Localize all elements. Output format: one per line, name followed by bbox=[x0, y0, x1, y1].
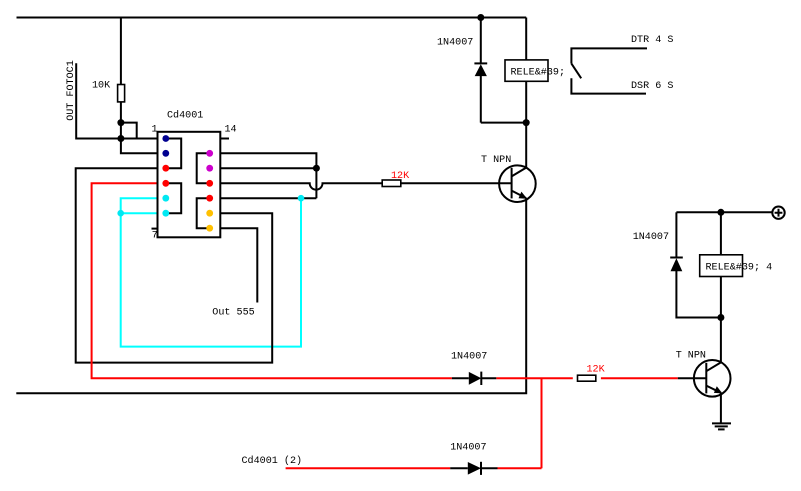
pin dot 1 bbox=[162, 135, 169, 142]
diode D1 1N4007 leads bbox=[480, 18, 482, 123]
wire relay2 left branch upper bbox=[675, 212, 677, 257]
wire 12K to Q1 base bbox=[401, 182, 512, 184]
wire Q2 emitter to ground bbox=[720, 393, 722, 424]
transistor Q2 emitter arrow bbox=[714, 386, 723, 393]
gate tie pins 10-8 bbox=[197, 198, 210, 228]
node cyan right bbox=[298, 195, 305, 202]
pin dot 8 bbox=[206, 225, 213, 232]
terminal OUT FOTOC1 wire bbox=[76, 63, 157, 138]
wire red branch down bbox=[541, 378, 543, 468]
wire pin4 red to diode D2 bbox=[92, 183, 452, 378]
resistor R1 10K body bbox=[118, 85, 125, 102]
resistor R3 12K body bbox=[578, 375, 596, 381]
pin dot 13 bbox=[206, 150, 213, 157]
switch S1 top contact DTR bbox=[571, 48, 647, 63]
pin dot 10 bbox=[206, 195, 213, 202]
svg-text:Cd4001 (2): Cd4001 (2) bbox=[242, 455, 303, 467]
svg-text:1N4007: 1N4007 bbox=[450, 443, 486, 454]
pin dot 9 bbox=[206, 210, 213, 217]
svg-text:1N4007: 1N4007 bbox=[437, 38, 473, 49]
pin dot 3 bbox=[162, 165, 169, 172]
node pins 13-12 tie bbox=[313, 165, 320, 172]
pin dot 6 bbox=[162, 210, 169, 217]
gate tie pins 1-3 bbox=[166, 139, 181, 169]
wire relay2 top to plus terminal bbox=[676, 211, 772, 213]
svg-text:DTR 4 S: DTR 4 S bbox=[631, 35, 673, 46]
wire pin6 cyan loop to node bbox=[121, 198, 301, 346]
wire pin13 bbox=[220, 153, 316, 168]
switch S1 blade bbox=[571, 64, 581, 79]
relay K1 box bbox=[505, 60, 548, 81]
ground symbol bbox=[712, 423, 731, 429]
diode D2 leads bbox=[452, 377, 496, 379]
wire pin12 and tie-down vertical bbox=[220, 168, 316, 198]
diode D4 triangle bbox=[671, 258, 683, 271]
node cyan left bbox=[117, 210, 124, 217]
node relay2 bottom bbox=[717, 314, 724, 321]
svg-text:7: 7 bbox=[152, 231, 158, 242]
wire red 12K to Q2 base bbox=[601, 377, 678, 379]
svg-text:Out 555: Out 555 bbox=[212, 308, 254, 319]
svg-text:RELE&#39;: RELE&#39; bbox=[511, 68, 566, 79]
node A resistor bottom bbox=[117, 119, 124, 126]
transistor Q1 emitter arrow bbox=[519, 192, 528, 199]
node top rail / D1 bbox=[477, 14, 484, 21]
node relay2 top bbox=[717, 209, 724, 216]
wire red diode D2 to 12K bbox=[496, 377, 573, 379]
diode D3 leads bbox=[450, 467, 497, 469]
node relay1 bottom / Q1 collector bbox=[523, 119, 530, 126]
svg-text:12K: 12K bbox=[391, 171, 410, 182]
transistor Q1 T NPN bbox=[499, 165, 536, 202]
pin 14 stub bbox=[220, 138, 229, 140]
wire top +V rail bbox=[17, 17, 527, 19]
transistor Q2 T NPN bbox=[694, 360, 731, 397]
svg-text:RELE&#39; 4: RELE&#39; 4 bbox=[706, 262, 773, 273]
pin dot 5 bbox=[162, 195, 169, 202]
wire pin5 cyan bbox=[121, 198, 158, 213]
gate tie pins 4-6 bbox=[166, 183, 181, 213]
svg-text:1: 1 bbox=[152, 124, 158, 135]
diode D1 triangle bbox=[475, 64, 487, 76]
IC U1 Cd4001 body bbox=[158, 132, 221, 238]
wire pin1 step from node A bbox=[121, 123, 137, 139]
wire GND rail to Q1 emitter bbox=[16, 198, 526, 393]
svg-text:1N4007: 1N4007 bbox=[451, 351, 487, 362]
svg-text:Cd4001: Cd4001 bbox=[167, 109, 203, 121]
diode D4 cathode bar bbox=[670, 257, 683, 259]
wire red Cd4001 (2) to diode D3 bbox=[286, 467, 451, 469]
pin dot 12 bbox=[206, 165, 213, 172]
node B OUT FOTOC1 bbox=[117, 135, 124, 142]
svg-text:1N4007: 1N4007 bbox=[633, 232, 669, 243]
svg-text:DSR 6 S: DSR 6 S bbox=[631, 81, 673, 92]
diode D1 cathode bar bbox=[474, 62, 487, 64]
wire pin10 bbox=[220, 197, 316, 199]
wire red diode D3 to branch bbox=[498, 467, 542, 469]
plus supply terminal bbox=[772, 207, 784, 219]
svg-text:OUT FOTOC1: OUT FOTOC1 bbox=[66, 60, 77, 121]
pin dot 4 bbox=[162, 180, 169, 187]
resistor R2 12K body bbox=[382, 180, 401, 187]
switch S1 bottom contact DSR bbox=[571, 78, 646, 93]
wire 10K top lead bbox=[120, 18, 122, 85]
pin 7 stub bbox=[152, 228, 158, 230]
wire relay2 left branch lower bbox=[676, 271, 721, 318]
diode D3 triangle bbox=[468, 462, 481, 475]
wire 10K bottom lead to pin2 bbox=[121, 102, 158, 153]
wire Q1 collector bbox=[525, 123, 527, 168]
diode D2 cathode bar bbox=[480, 372, 482, 385]
diode D3 cathode bar bbox=[480, 462, 482, 475]
pin dot 11 bbox=[206, 180, 213, 187]
svg-text:T NPN: T NPN bbox=[676, 351, 706, 362]
wire relay1 branch vertical bbox=[525, 18, 527, 123]
gate tie pins 13-11 bbox=[197, 153, 210, 183]
wire relay2 vertical / Q2 collector bbox=[720, 212, 722, 362]
svg-text:10K: 10K bbox=[92, 81, 111, 92]
pin dot 2 bbox=[162, 150, 169, 157]
diode D2 triangle bbox=[469, 372, 482, 385]
wire relay1 bottom link bbox=[481, 122, 526, 124]
svg-text:12K: 12K bbox=[587, 365, 606, 376]
wire pin8 Out 555 stub bbox=[220, 228, 257, 302]
svg-text:14: 14 bbox=[225, 124, 237, 135]
wire Q2 base stub bbox=[678, 377, 707, 379]
wire pin3 to pin9 loop bbox=[76, 168, 273, 362]
relay K2 box bbox=[700, 255, 743, 277]
wire pin11 with hop to 12K bbox=[220, 183, 382, 189]
svg-text:T NPN: T NPN bbox=[481, 155, 511, 166]
